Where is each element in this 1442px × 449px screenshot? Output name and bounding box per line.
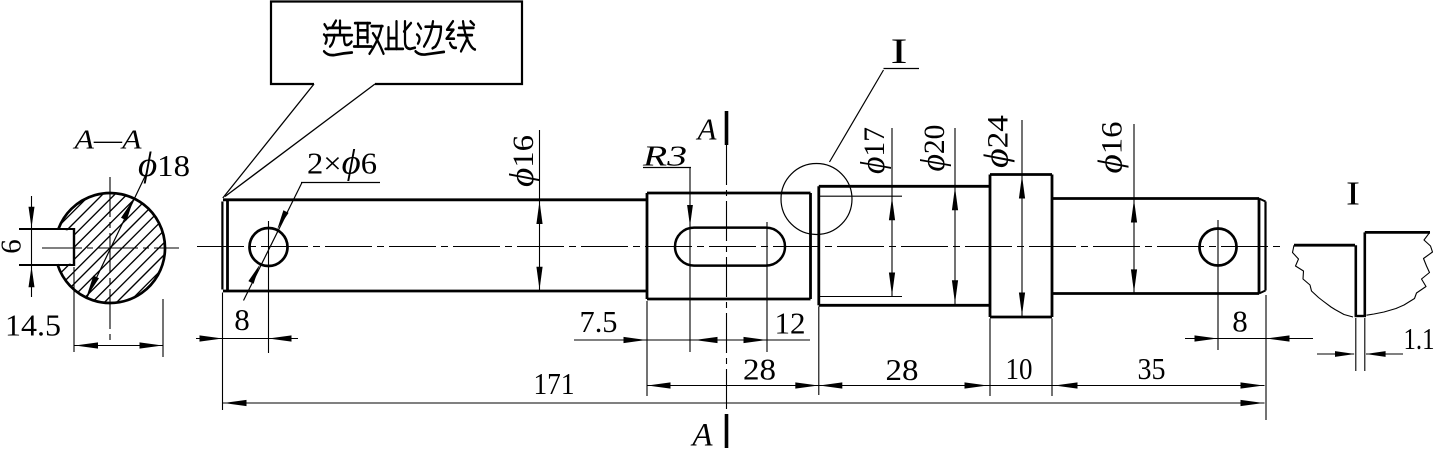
- svg-text:7.5: 7.5: [580, 304, 618, 339]
- svg-text:8: 8: [1232, 304, 1248, 339]
- svg-text:ϕ17: ϕ17: [855, 127, 892, 174]
- svg-text:12: 12: [775, 306, 806, 341]
- svg-text:ϕ20: ϕ20: [915, 125, 952, 172]
- svg-text:A: A: [690, 417, 713, 449]
- svg-text:2×ϕ6: 2×ϕ6: [307, 143, 377, 182]
- svg-text:8: 8: [234, 302, 250, 337]
- svg-text:A—A: A—A: [72, 124, 142, 154]
- svg-text:28: 28: [886, 352, 919, 387]
- svg-text:ϕ18: ϕ18: [138, 145, 190, 184]
- svg-text:ϕ24: ϕ24: [978, 115, 1015, 168]
- svg-text:171: 171: [534, 366, 575, 401]
- svg-text:35: 35: [1138, 351, 1166, 386]
- svg-text:6: 6: [0, 239, 28, 254]
- svg-text:ϕ16: ϕ16: [504, 135, 541, 187]
- svg-text:28: 28: [743, 352, 776, 387]
- svg-text:R3: R3: [642, 141, 687, 173]
- svg-text:1.1: 1.1: [1404, 321, 1435, 356]
- svg-text:10: 10: [1006, 351, 1033, 386]
- svg-text:I: I: [1346, 176, 1360, 213]
- svg-text:ϕ16: ϕ16: [1092, 122, 1129, 174]
- svg-text:14.5: 14.5: [5, 308, 61, 343]
- svg-text:A: A: [696, 112, 718, 147]
- svg-text:I: I: [891, 31, 908, 71]
